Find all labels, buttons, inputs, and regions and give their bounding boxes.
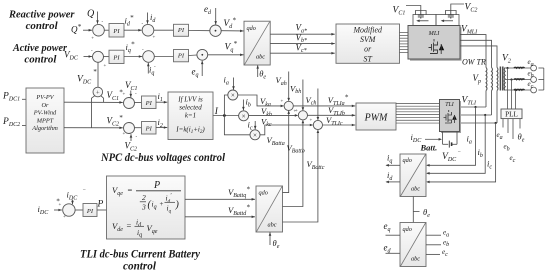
svg-text:*: *	[93, 68, 97, 76]
inverter MLI block	[408, 26, 460, 60]
inverter TLI block	[440, 100, 460, 132]
wire S_id to PI2	[154, 29, 174, 31]
wire theta_e between transforms	[412, 197, 414, 223]
summing junction sum C2	[124, 123, 135, 134]
summing junction with ed	[210, 25, 221, 36]
svg-text:Reactive power: Reactive power	[8, 8, 75, 20]
wire ib to abc-qdo block	[427, 115, 485, 173]
wire Vbh into sum b	[302, 80, 304, 111]
wire S_Q to PI	[104, 29, 109, 31]
wire sum a to PWM	[293, 105, 355, 107]
wire node to multiplier c	[224, 116, 250, 135]
svg-text:×: ×	[253, 131, 257, 139]
svg-text:PI: PI	[145, 126, 153, 133]
battery Batt	[448, 141, 450, 148]
wire eq up into sum	[201, 61, 203, 76]
wire VDC* from sum to divider	[97, 62, 99, 87]
wire grid phase a	[505, 67, 530, 69]
svg-text:TLI dc-bus Current Battery: TLI dc-bus Current Battery	[80, 248, 201, 260]
wire VC1 into sum	[130, 91, 132, 98]
summing junction S_id	[142, 24, 154, 36]
block PWM	[356, 103, 396, 130]
wire theta_e into A	[257, 65, 259, 77]
svg-text:MPPT: MPPT	[36, 117, 54, 124]
wire VBattc up to sum c	[283, 130, 318, 222]
bus PWM to TLI	[396, 103, 440, 123]
svg-text:PI: PI	[86, 208, 94, 215]
svg-text:+: +	[294, 110, 297, 115]
wire Q down into sum	[97, 12, 99, 24]
wire VC2* to sum C2	[64, 127, 123, 129]
svg-text:=: =	[127, 221, 132, 231]
wire S_VDC to PI3	[104, 56, 110, 58]
svg-text:control: control	[123, 260, 157, 272]
wire MLI phase b to transformer	[460, 40, 492, 67]
transformer primary winding b	[491, 68, 494, 91]
transformer core	[499, 67, 501, 91]
wire PLL tap c	[515, 90, 517, 109]
svg-text:–: –	[82, 188, 86, 193]
inverter TLI shadow	[441, 101, 461, 133]
svg-text:+: +	[91, 37, 94, 42]
wire MLI phase c to transformer	[460, 46, 497, 68]
svg-text:): )	[175, 200, 180, 211]
current arrow in cell 2	[442, 20, 453, 22]
inductor grid phase b	[514, 78, 524, 81]
svg-text:+: +	[104, 64, 107, 69]
wire battery leads	[443, 143, 449, 145]
transform block abc-qdo currents	[400, 154, 426, 197]
junction ic tap	[495, 122, 497, 124]
wire divider leg to VC2* line	[92, 96, 95, 128]
svg-text:+: +	[281, 100, 284, 105]
svg-text:ST: ST	[364, 54, 373, 63]
transform block qdo-abc B	[256, 186, 283, 232]
wire Vkb to sum b	[249, 114, 298, 116]
transformer secondary winding	[503, 68, 506, 91]
svg-text:abc: abc	[256, 53, 265, 60]
wire ic into multiplier	[254, 121, 256, 129]
svg-text:abc: abc	[411, 185, 420, 192]
wire VBattq to qdo	[185, 198, 255, 200]
svg-text:+: +	[153, 36, 156, 41]
wire VC1 to cap cell 1	[406, 6, 421, 11]
wire ib into multiplier	[242, 100, 244, 111]
wire PLL tap a	[507, 68, 509, 109]
svg-text:abc: abc	[268, 222, 277, 229]
wire PI1 to S_id	[124, 29, 142, 31]
multiplier Mc	[250, 130, 260, 140]
controller PI1	[109, 24, 124, 38]
block battery power equations	[107, 176, 186, 239]
wire iq output	[386, 164, 400, 166]
inductor grid phase a	[514, 66, 524, 69]
source e_a	[531, 65, 537, 71]
controller PI6	[142, 122, 157, 135]
bracket over capacitor C1	[416, 11, 427, 16]
svg-text:+: +	[160, 200, 164, 208]
junction grid tap c	[514, 89, 516, 91]
svg-text:MLI: MLI	[428, 30, 441, 37]
wire Vkc to sum c	[260, 125, 313, 135]
svg-text:+: +	[310, 119, 313, 124]
wire VC2 into sum	[130, 134, 132, 141]
block Modified SVM or ST	[336, 24, 400, 63]
wire PI7 to equation block	[97, 209, 107, 211]
source e_b	[531, 77, 537, 83]
svg-text:PI: PI	[145, 100, 153, 107]
wire MLI phase a to transformer	[460, 35, 486, 68]
bracket over capacitor C2	[446, 11, 457, 16]
wire PI2 to sum ed	[189, 30, 210, 32]
summing junction sum b	[298, 111, 307, 120]
svg-text:2: 2	[142, 193, 146, 202]
svg-text:PI: PI	[112, 28, 120, 35]
wire sum b to PWM	[308, 114, 356, 116]
wire VDC to sum	[84, 56, 93, 58]
svg-text:PV-Wind: PV-Wind	[33, 110, 57, 117]
wire grid phase b	[505, 79, 530, 81]
wire TLI phase b	[460, 114, 492, 116]
wire ia to abc-qdo block	[427, 107, 476, 165]
svg-text:Or: Or	[42, 102, 50, 109]
summing junction S_VDC	[93, 51, 104, 62]
transform block qdo-abc A	[244, 21, 270, 65]
wire Vka to sum a	[238, 95, 283, 106]
wire TLI to battery right	[456, 132, 458, 145]
svg-text:3: 3	[141, 203, 146, 212]
wire Vd* to qdo block	[221, 30, 243, 32]
block PLL	[501, 109, 522, 119]
source e_c	[531, 87, 537, 93]
controller PI2	[174, 24, 189, 36]
svg-text:selected: selected	[179, 104, 202, 112]
svg-text:qdo: qdo	[403, 226, 412, 233]
wire sum C2 to PI6	[135, 127, 142, 129]
wire id output	[386, 181, 400, 183]
wire eq input	[386, 234, 401, 236]
bus SVM to MLI	[400, 33, 409, 53]
svg-text:+: +	[123, 132, 126, 137]
wire VBattd to qdo	[185, 216, 255, 218]
wire TLI to battery left	[442, 132, 444, 145]
wire VBattb up to sum b	[283, 121, 303, 207]
wire LVV output I	[213, 115, 239, 117]
summing junction sum C1	[124, 98, 135, 109]
wire PLL tap b	[511, 80, 513, 110]
wire theta_e into B	[269, 232, 271, 245]
equation fraction bar	[136, 190, 181, 192]
svg-text:qdo: qdo	[247, 25, 256, 32]
junction grid tap a	[506, 67, 508, 69]
junction ib tap	[484, 114, 486, 116]
wire ed input	[386, 252, 401, 254]
summing junction sum a	[284, 101, 293, 110]
svg-text:Algorithm: Algorithm	[31, 125, 58, 132]
svg-text:control: control	[26, 20, 59, 32]
wire TLI phase c	[460, 122, 498, 124]
wire PLL out e_b	[507, 119, 509, 133]
wire VBatta up to sum a	[283, 111, 289, 192]
junction node I	[223, 114, 226, 117]
svg-text:PLL: PLL	[505, 110, 518, 118]
wire Vq* to qdo block	[208, 54, 244, 56]
wire VC1* to sum C1	[64, 101, 123, 103]
wire Q* to sum	[83, 29, 92, 31]
wire iDC* to sum	[54, 209, 62, 211]
wire grid neutral bus	[543, 68, 545, 90]
controller PI5	[142, 96, 157, 109]
svg-text:k=1: k=1	[185, 112, 196, 120]
wire ed down into sum	[215, 8, 217, 25]
wire PI3 to S_iq	[124, 56, 142, 58]
svg-text:+: +	[96, 90, 100, 97]
svg-text:OW TR: OW TR	[462, 58, 486, 67]
wire ea output	[426, 234, 441, 236]
wire ic to abc-qdo block	[427, 123, 496, 182]
transformer primary winding c	[496, 68, 499, 91]
svg-text:qdo: qdo	[259, 189, 268, 196]
sign marks near summing junctions	[59, 20, 313, 221]
multiplier Ma	[228, 90, 238, 100]
svg-text:–: –	[457, 150, 461, 155]
svg-text:P: P	[153, 180, 160, 191]
wire Vc* to SVM	[270, 52, 335, 54]
wire PDC1 into MPPT	[22, 98, 26, 100]
inverter MLI shadow	[410, 27, 462, 61]
wire ec output	[426, 253, 440, 255]
wire sum to PI7	[75, 209, 83, 211]
inductor grid phase c	[514, 88, 524, 91]
summing junction with eq	[197, 49, 208, 60]
wire PI5 to LVV	[156, 101, 167, 103]
svg-text:Modified: Modified	[352, 25, 382, 34]
svg-text:qdo: qdo	[403, 157, 412, 164]
controller PI3	[109, 50, 124, 63]
svg-text:Active power: Active power	[12, 42, 68, 54]
svg-text:×: ×	[242, 112, 246, 120]
svg-text:×: ×	[231, 92, 235, 100]
wire iDC arrow	[425, 138, 440, 140]
controller PI7	[83, 204, 97, 217]
svg-text:+: +	[123, 93, 126, 98]
transistor symbol in MLI	[429, 39, 438, 54]
wire TLI phase a	[460, 106, 487, 108]
summing junction S_iq	[143, 51, 155, 63]
wire PI4 to sum eq	[189, 54, 197, 57]
svg-text:SVM: SVM	[360, 35, 376, 44]
wire VC2 to cap cell 2	[451, 4, 464, 11]
svg-text:PI: PI	[177, 53, 185, 60]
wire S_iq to PI4	[154, 56, 173, 58]
svg-text:=: =	[128, 185, 133, 195]
wire ia into multiplier	[233, 78, 235, 90]
wire PI6 to LVV	[156, 127, 167, 129]
multiplier Mb	[239, 111, 249, 121]
svg-text:PV-PV: PV-PV	[35, 94, 54, 101]
wire Vb* to SVM	[270, 43, 335, 45]
svg-text:abc: abc	[411, 255, 420, 262]
svg-text:Batt.: Batt.	[420, 143, 438, 153]
capacitor cell 2 frame	[436, 15, 459, 26]
summing junction sum c	[313, 120, 322, 129]
capacitor C1	[418, 11, 424, 19]
capacitor C2	[448, 11, 454, 19]
wire PLL out e_c	[512, 119, 514, 139]
svg-text:control: control	[24, 54, 57, 66]
wire divider leg to VC1* line	[101, 96, 104, 103]
wire Vah into sum a	[288, 72, 290, 101]
transformer primary winding a	[485, 68, 488, 91]
wire iDC measured into sum	[72, 200, 74, 205]
wire id down into S_id	[147, 13, 149, 24]
svg-text:+: +	[59, 203, 62, 208]
wire eb output	[426, 244, 441, 246]
svg-text:NPC dc-bus voltages control: NPC dc-bus voltages control	[100, 152, 226, 164]
summing junction S_Q	[93, 24, 105, 36]
wire iq up into S_iq	[147, 63, 149, 74]
current arrow in cell 1	[418, 20, 429, 22]
wire Vch into sum c	[317, 89, 319, 120]
wire sum c to PWM	[323, 124, 356, 126]
wire Va* to SVM	[270, 33, 335, 35]
wire PDC2 into MPPT	[22, 125, 26, 127]
wire node to multiplier a	[224, 95, 227, 116]
svg-text:or: or	[364, 45, 372, 54]
svg-text:If LVV is: If LVV is	[177, 95, 203, 103]
junction ia tap	[474, 106, 476, 108]
svg-text:P: P	[97, 200, 104, 210]
block MPPT algorithm	[26, 88, 64, 153]
svg-text:PWM: PWM	[364, 113, 388, 124]
transform block qdo-abc voltages	[400, 223, 426, 267]
svg-text:TLI: TLI	[445, 102, 454, 108]
wire PLL out theta	[519, 119, 521, 129]
wire grid phase c	[505, 89, 530, 91]
svg-text:PI: PI	[112, 54, 120, 61]
controller PI4	[174, 50, 189, 62]
capacitor cell 1 frame	[413, 15, 436, 26]
svg-text:Q: Q	[87, 9, 95, 20]
wire sum C1 to PI5	[135, 102, 142, 104]
transistor symbol in TLI	[444, 110, 452, 123]
svg-text:+: +	[63, 215, 66, 220]
divider half circle	[93, 87, 103, 97]
svg-text:PI: PI	[177, 27, 185, 34]
summing junction sum iDC	[63, 204, 75, 216]
wire PLL out e_a	[502, 119, 504, 128]
junction grid tap b	[510, 78, 512, 80]
block LVV selector	[168, 92, 213, 140]
